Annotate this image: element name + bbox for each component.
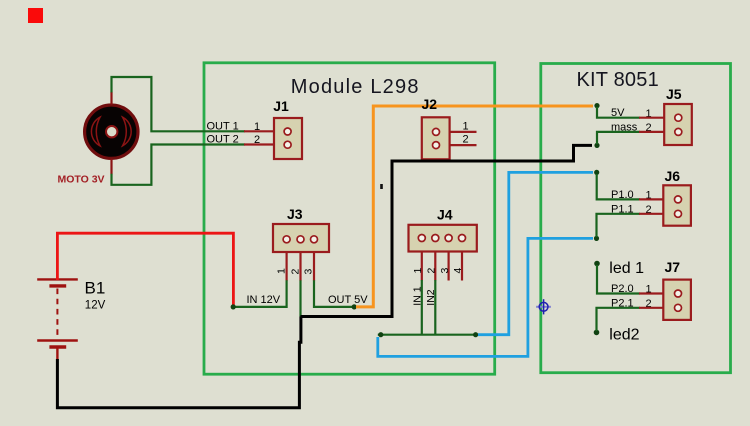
label P2.1 [611, 297, 652, 310]
wire J4 pin2 down to IN2 node [434, 280, 436, 335]
svg-text:P2.0: P2.0 [611, 283, 634, 295]
connector J5 [639, 86, 692, 145]
label P1.1 [611, 203, 652, 216]
label OUT 5V [328, 294, 368, 306]
label led2 [609, 327, 639, 344]
svg-text:1: 1 [463, 120, 469, 132]
svg-text:1: 1 [276, 268, 288, 274]
svg-text:mass: mass [611, 121, 638, 133]
svg-text:Module L298: Module L298 [291, 76, 420, 98]
svg-text:12V: 12V [85, 300, 106, 312]
wire J3 pin2 down to black net [299, 280, 301, 316]
svg-text:OUT 1: OUT 1 [207, 120, 239, 132]
wire J4 pin1 down to IN1 node [421, 280, 423, 335]
label OUT 1 [207, 120, 261, 132]
svg-text:P1.0: P1.0 [611, 189, 634, 201]
subcircuit box KIT 8051 [541, 64, 731, 373]
svg-text:5V: 5V [611, 107, 625, 119]
wire motor plus to J1 pin1 [112, 77, 246, 131]
svg-text:MOTO 3V: MOTO 3V [58, 174, 105, 186]
label IN 12V [247, 294, 281, 306]
junction dot OUT 5V [352, 304, 357, 309]
svg-text:2: 2 [463, 134, 469, 146]
no-connect tick [380, 184, 383, 189]
svg-text:2: 2 [290, 269, 302, 275]
selection marker (red square) [28, 8, 43, 23]
label J2 [422, 96, 438, 112]
junction dot P1.0 [594, 170, 599, 175]
wire J3 pin3 to OUT 5V node [314, 280, 353, 307]
wire battery minus to J3 pin2 node (black) [57, 317, 301, 408]
svg-text:J7: J7 [665, 259, 681, 275]
wire motor minus to J1 pin2 [112, 145, 246, 185]
svg-text:1: 1 [412, 268, 424, 274]
svg-text:led2: led2 [609, 327, 639, 344]
svg-text:2: 2 [254, 134, 260, 146]
svg-text:OUT 5V: OUT 5V [328, 294, 368, 306]
svg-text:J5: J5 [666, 86, 682, 102]
svg-text:1: 1 [254, 121, 260, 133]
wire mass row [597, 132, 640, 144]
svg-text:OUT 2: OUT 2 [207, 134, 239, 146]
junction dot P1.1 [594, 236, 599, 241]
battery B1 [37, 278, 105, 360]
svg-text:KIT 8051: KIT 8051 [577, 69, 659, 91]
svg-text:IN 12V: IN 12V [247, 294, 281, 306]
terminal dot led2 [594, 330, 600, 336]
svg-text:3: 3 [303, 269, 315, 275]
svg-text:3: 3 [439, 268, 451, 274]
junction dot mass [594, 143, 599, 148]
svg-text:P1.1: P1.1 [611, 203, 634, 215]
wire J3 pin1 to IN 12V node [234, 280, 287, 307]
junction dot IN1 net [378, 332, 383, 337]
connector J1 [244, 98, 302, 159]
svg-text:J6: J6 [665, 168, 681, 184]
label mass [611, 121, 652, 134]
label OUT 2 [207, 134, 261, 146]
label P2.0 [611, 283, 652, 296]
wire P1.0 row [597, 174, 640, 199]
label 5V [611, 107, 652, 120]
wire OUT 5V to 5V node (orange) [356, 106, 593, 307]
svg-text:J4: J4 [437, 207, 453, 223]
svg-text:J3: J3 [287, 206, 303, 222]
junction dot IN 12V [231, 304, 236, 309]
connector J2 [422, 117, 477, 159]
svg-text:P2.1: P2.1 [611, 297, 634, 309]
connector J3 [273, 206, 329, 281]
origin marker crosshair [536, 299, 551, 314]
svg-text:J1: J1 [273, 98, 289, 114]
wire 5V row [597, 107, 640, 118]
connector J4 [409, 207, 477, 306]
wire IN2 node to P1.0 (blue) [478, 172, 593, 334]
svg-text:led 1: led 1 [609, 260, 644, 277]
terminal dot led 1 [594, 261, 600, 267]
wire IN1 node to P1.1 (blue) [378, 238, 593, 356]
svg-text:J2: J2 [422, 96, 438, 112]
junction dot 5V [594, 103, 599, 108]
wire black net J3 pin2 to mass node [301, 145, 593, 316]
svg-text:4: 4 [452, 268, 464, 274]
svg-text:B1: B1 [85, 278, 106, 297]
wire P1.1 row [597, 214, 641, 237]
label led 1 [609, 260, 644, 277]
wire led2 to P2.1 row [597, 308, 641, 331]
motor MOTO 3V [58, 92, 139, 186]
wire battery plus to IN 12V node (red) [57, 233, 233, 305]
svg-text:2: 2 [425, 268, 437, 274]
wire IN nodes horizontal green [378, 334, 476, 336]
subcircuit box Module L298 [204, 63, 495, 374]
junction dot IN2 net [473, 332, 478, 337]
connector J6 [639, 168, 691, 226]
connector J7 [639, 259, 691, 320]
label P1.0 [611, 189, 652, 202]
wire led1 to P2.0 row [597, 265, 640, 294]
